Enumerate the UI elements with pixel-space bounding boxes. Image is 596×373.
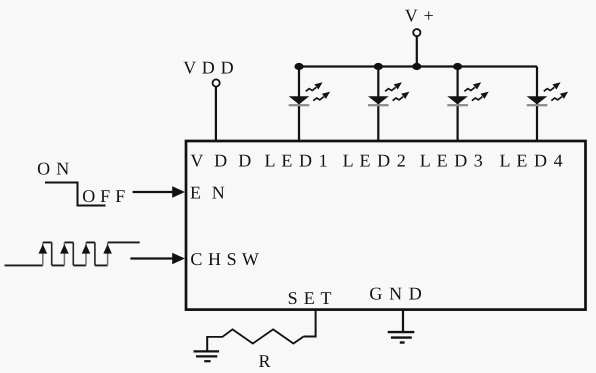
V+ terminal circle: [413, 29, 420, 36]
svg-text:E N: E N: [190, 182, 228, 202]
wire V+ to bus: [416, 36, 418, 66]
LED D3: [447, 67, 488, 142]
LED D2: [368, 67, 409, 142]
svg-text:V D D: V D D: [190, 150, 254, 170]
VDD terminal circle: [213, 79, 220, 86]
junction dot at V+: [412, 63, 421, 70]
wire GND pin down: [402, 310, 404, 332]
LED D1: [289, 67, 330, 142]
svg-text:L E D 3: L E D 3: [420, 150, 484, 170]
svg-text:C H S W: C H S W: [190, 249, 259, 269]
svg-text:R: R: [259, 351, 271, 371]
svg-text:O N: O N: [37, 159, 70, 179]
clock edge arrowhead 1: [39, 244, 48, 253]
ON/OFF step waveform: [45, 183, 106, 206]
clock edge arrowhead 3: [82, 244, 91, 253]
clock edge arrowhead 2: [60, 244, 69, 253]
svg-text:L E D 1: L E D 1: [265, 150, 329, 170]
svg-text:L E D 2: L E D 2: [343, 150, 407, 170]
ground symbol at GND: [388, 331, 415, 333]
wire arrow into CHSW: [130, 257, 173, 259]
svg-text:L E D 4: L E D 4: [500, 150, 564, 170]
wire SET pin down: [304, 310, 316, 337]
svg-text:G N D: G N D: [369, 284, 423, 304]
junction dot at LED2: [374, 63, 383, 70]
resistor R: [207, 329, 303, 343]
CHSW clock waveform horizontals: [5, 242, 140, 265]
ground symbol for R: [194, 350, 220, 352]
wire anode bus: [299, 65, 537, 67]
IC body U1: [186, 141, 586, 310]
junction dot at LED3: [453, 63, 462, 70]
clock rising edge shafts: [43, 242, 108, 265]
clock edge arrowhead 4: [103, 244, 112, 253]
wire arrow into EN: [133, 191, 174, 193]
clock falling edges: [52, 242, 95, 265]
wire VDD terminal to pin: [215, 87, 217, 141]
junction dot at LED1: [294, 63, 303, 70]
svg-text:O F F: O F F: [82, 186, 125, 206]
LED D4: [527, 67, 568, 142]
svg-text:V D D: V D D: [183, 58, 234, 78]
svg-text:S E T: S E T: [288, 288, 333, 308]
svg-text:V +: V +: [405, 5, 435, 25]
ground stem for R: [206, 336, 208, 351]
